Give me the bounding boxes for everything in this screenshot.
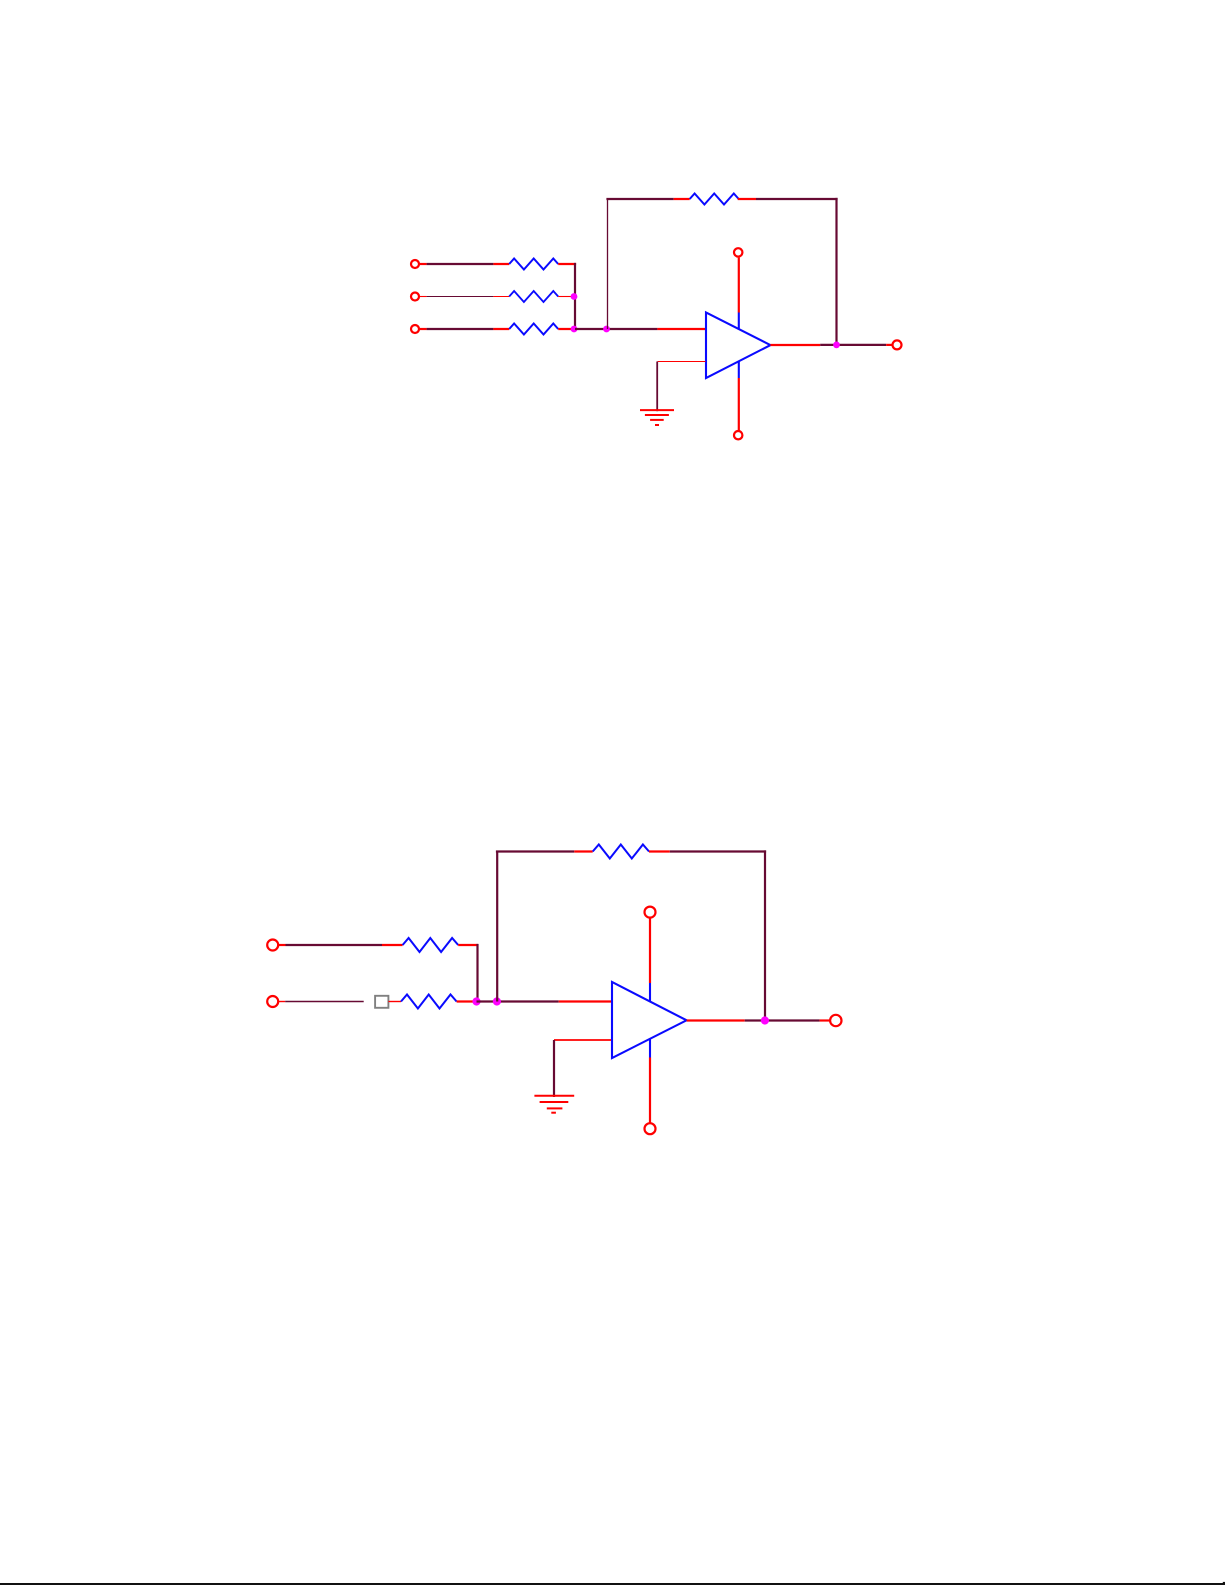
wire [493, 296, 509, 298]
wire [738, 258, 740, 313]
wire [657, 328, 705, 330]
wire [770, 344, 820, 346]
resistor R1 [403, 938, 459, 952]
wire [835, 198, 837, 345]
wire [496, 852, 498, 1002]
wire [477, 1000, 559, 1002]
wire [649, 918, 651, 983]
op-amp U1 [706, 313, 770, 379]
pin V- [738, 361, 740, 378]
wire [496, 850, 574, 852]
wire [420, 296, 427, 298]
junction [571, 293, 578, 300]
wire [764, 850, 766, 1020]
wire [457, 1000, 477, 1002]
pin V- [649, 1039, 651, 1058]
wire [606, 198, 673, 200]
wire [493, 263, 509, 265]
resistor R2 [401, 995, 457, 1009]
input terminal 2 [411, 293, 419, 301]
wire [886, 344, 892, 346]
wire [554, 1039, 611, 1041]
junction [571, 326, 578, 333]
wire [738, 378, 740, 431]
wire [285, 1001, 364, 1003]
power terminal V+ [645, 907, 656, 918]
wire [820, 1019, 830, 1021]
resistor R4 [690, 194, 739, 205]
wire [427, 328, 494, 330]
op-amp U2 [612, 982, 687, 1058]
wire [493, 328, 509, 330]
wire [574, 263, 576, 329]
wire [575, 328, 657, 330]
wire [658, 361, 706, 363]
wire [820, 344, 886, 346]
wire [420, 328, 427, 330]
wire [559, 1000, 611, 1002]
wire [286, 944, 383, 946]
wire [649, 1058, 651, 1123]
wire [670, 850, 766, 852]
power terminal V- [734, 431, 742, 439]
wire [553, 1040, 555, 1097]
power terminal V+ [734, 248, 742, 256]
input terminal 2 [267, 996, 278, 1007]
junction [472, 997, 480, 1005]
output terminal [893, 340, 902, 349]
resistor R1 [509, 259, 558, 270]
input terminal 1 [267, 940, 278, 951]
power terminal V- [645, 1123, 656, 1134]
junction [603, 326, 610, 333]
wire [738, 198, 756, 200]
wire [427, 263, 494, 265]
wire [756, 198, 838, 200]
output terminal [830, 1015, 841, 1026]
resistor R2 [509, 291, 558, 302]
wire [420, 263, 427, 265]
wire [574, 850, 592, 852]
wire [458, 944, 478, 946]
wire [388, 1001, 401, 1003]
ground [640, 410, 674, 425]
wire [687, 1019, 745, 1021]
wire [607, 199, 609, 329]
pin V+ [738, 313, 740, 330]
wire [745, 1019, 820, 1021]
junction [761, 1016, 769, 1024]
unconnected pin marker [375, 996, 388, 1008]
ground [534, 1096, 574, 1113]
input terminal 1 [411, 260, 419, 268]
wire [674, 198, 690, 200]
wire [649, 850, 670, 852]
junction [833, 342, 840, 349]
wire [427, 296, 494, 298]
wire [278, 944, 285, 946]
pin V+ [649, 983, 651, 1002]
junction [493, 997, 501, 1005]
wire [558, 296, 574, 298]
wire [278, 1001, 285, 1003]
input terminal 3 [411, 325, 419, 333]
wire [382, 944, 403, 946]
wire [558, 328, 575, 330]
wire [558, 263, 576, 265]
resistor R3 [509, 324, 558, 335]
resistor R3 [593, 845, 649, 859]
wire [656, 362, 658, 412]
wire [476, 944, 478, 1002]
